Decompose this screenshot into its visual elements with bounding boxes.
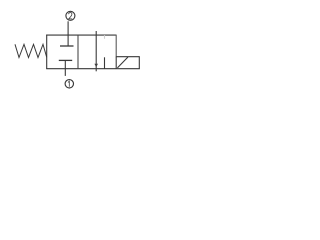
port 2 stem / blocked port stem (top T) bbox=[67, 21, 69, 46]
valve body bottom edge (extends under solenoid) bbox=[46, 68, 140, 70]
solenoid box left edge bbox=[115, 57, 117, 69]
port 2 circle bbox=[66, 11, 75, 20]
blocked port bar (top T) bbox=[60, 45, 74, 47]
valve body right edge bbox=[115, 35, 117, 58]
valve body left edge bbox=[46, 35, 48, 69]
port 2 label digit bbox=[69, 13, 73, 19]
spring (left return spring of valve) bbox=[15, 44, 47, 57]
divider stub top (faint) bbox=[104, 35, 106, 39]
flow path line (open position) bbox=[95, 31, 97, 71]
blocked port bar (bottom T) bbox=[59, 59, 72, 61]
port 1 stem (bottom T) bbox=[64, 60, 66, 76]
position divider bbox=[77, 35, 79, 69]
solenoid box right edge bbox=[138, 56, 140, 68]
valve body top edge bbox=[46, 34, 116, 36]
flow path arrowhead bbox=[94, 64, 98, 67]
solenoid diagonal stroke bbox=[117, 57, 128, 68]
solenoid box top edge bbox=[116, 56, 139, 58]
port 1 circle bbox=[65, 80, 73, 88]
divider stub bottom bbox=[104, 57, 106, 68]
port 1 label digit bbox=[68, 81, 69, 87]
